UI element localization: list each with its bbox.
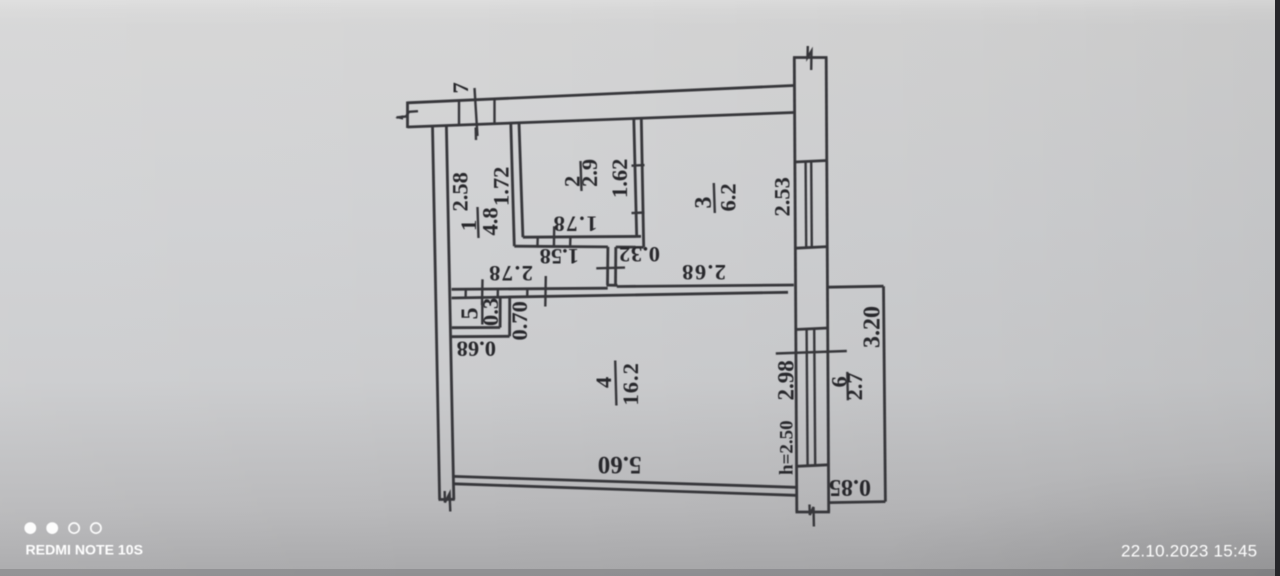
tick corridor small b (497, 288, 500, 298)
tick dim 0.32 (596, 266, 625, 269)
svg-text:16.2: 16.2 (618, 362, 643, 405)
svg-text:3: 3 (691, 197, 717, 209)
svg-text:22.10.2023 15:45: 22.10.2023 15:45 (1121, 542, 1257, 561)
window1 glazing a (804, 162, 807, 248)
wall room1-2 left line (511, 123, 515, 246)
label 1 over 4.8 (456, 207, 503, 238)
closet5 inner bottom (452, 326, 500, 329)
svg-text:0.85: 0.85 (829, 474, 871, 500)
camera dot filled 2 (46, 522, 58, 534)
svg-text:0.32: 0.32 (619, 242, 660, 267)
tick dim 2.98 (776, 351, 847, 354)
camera dot ring 2 (91, 523, 101, 533)
tick room2wall small b (569, 238, 572, 247)
svg-text:7: 7 (448, 82, 473, 93)
wall top outer (408, 86, 794, 103)
wall right inner edge (794, 58, 797, 513)
svg-text:1.58: 1.58 (540, 244, 579, 269)
svg-text:1.62: 1.62 (607, 159, 632, 198)
balcony right (884, 286, 886, 501)
svg-text:4: 4 (591, 377, 616, 388)
window1 sill bottom (796, 247, 828, 249)
wall top left cap (406, 102, 409, 129)
break mark right-top (808, 46, 812, 70)
tick corridor long a (481, 279, 484, 305)
svg-text:2.53: 2.53 (770, 177, 795, 216)
wall left bottom cap (439, 498, 455, 501)
tick corridor small c (526, 288, 529, 298)
label 2 over 2.9 (560, 159, 603, 191)
tick dim 7 (475, 88, 478, 136)
label 3 over 6.2 (691, 183, 741, 213)
break arrow blob (395, 115, 403, 119)
svg-text:3.20: 3.20 (860, 306, 886, 348)
balcony top (827, 286, 884, 287)
wall bottom lower (454, 484, 796, 496)
svg-text:0.70: 0.70 (507, 301, 532, 340)
svg-text:0.68: 0.68 (457, 337, 496, 362)
room2 bottom wall outer right segment (616, 246, 644, 249)
tick room2wall small a (536, 238, 539, 247)
tick corridor small a (464, 289, 467, 299)
wall room2-3 left line (634, 119, 637, 238)
camera dot ring 1 (69, 523, 79, 533)
label 5 over 0.3 (458, 298, 504, 326)
door jamb right (614, 247, 617, 285)
window1 sill top (795, 161, 827, 163)
wall corridor upper (452, 288, 608, 289)
svg-text:2.68: 2.68 (681, 260, 726, 285)
wall left inner (446, 126, 453, 499)
tick corridor long b (544, 276, 547, 307)
closet5 outer bottom (452, 335, 510, 338)
break mark top-left (397, 111, 419, 117)
room2 bottom wall inner (523, 235, 641, 239)
tick room2wall tall (553, 226, 556, 247)
wall room3-4 top (617, 285, 794, 287)
svg-text:2.7: 2.7 (842, 372, 867, 400)
top wall connector a (458, 101, 460, 126)
svg-text:REDMI NOTE 10S: REDMI NOTE 10S (26, 542, 143, 558)
door jamb left (606, 247, 609, 285)
label 6 over 2.7 (827, 372, 868, 401)
wall room2-3 right line (641, 118, 643, 247)
wall corridor lower continuous (452, 292, 788, 298)
window2 glazing b (814, 329, 815, 466)
opening divider a on wall 2-3 (632, 164, 645, 167)
svg-text:1.78: 1.78 (552, 212, 597, 237)
closet5 inner right (499, 298, 502, 328)
wall bottom upper (453, 476, 795, 487)
tick room1 top (475, 128, 478, 141)
svg-text:2.9: 2.9 (577, 159, 602, 187)
svg-text:4.8: 4.8 (478, 207, 503, 235)
wall room1-2 right line (519, 123, 523, 237)
top wall connector b (493, 99, 495, 124)
svg-text:1.72: 1.72 (489, 167, 514, 206)
svg-text:2.78: 2.78 (488, 261, 533, 286)
svg-text:h=2.50: h=2.50 (777, 420, 798, 475)
label 4 over 16.2 (591, 361, 643, 406)
svg-text:2.58: 2.58 (448, 172, 473, 211)
camera dot filled 1 (24, 522, 36, 534)
wall left outer (433, 126, 440, 500)
wall right top cap (793, 56, 828, 59)
svg-text:6.2: 6.2 (716, 183, 741, 211)
break mark bottom-left (445, 491, 451, 512)
wall right bottom cap (796, 511, 831, 514)
window2 glazing a (807, 329, 808, 466)
svg-text:0.3: 0.3 (478, 298, 503, 326)
window1 glazing b (810, 162, 813, 248)
wall top inner (408, 113, 794, 128)
closet5 outer right (508, 298, 511, 336)
window2 sill bottom (796, 465, 828, 467)
wall right outer edge (826, 58, 829, 513)
balcony bottom (829, 502, 885, 503)
jamb bottom connector (607, 284, 618, 287)
room2 bottom wall outer left segment (514, 245, 608, 248)
svg-text:5.60: 5.60 (598, 451, 642, 478)
window2 sill top (796, 328, 828, 330)
break mark right-bottom (810, 505, 814, 527)
svg-text:2.98: 2.98 (774, 360, 799, 400)
opening divider b on wall 2-3 (632, 211, 645, 214)
